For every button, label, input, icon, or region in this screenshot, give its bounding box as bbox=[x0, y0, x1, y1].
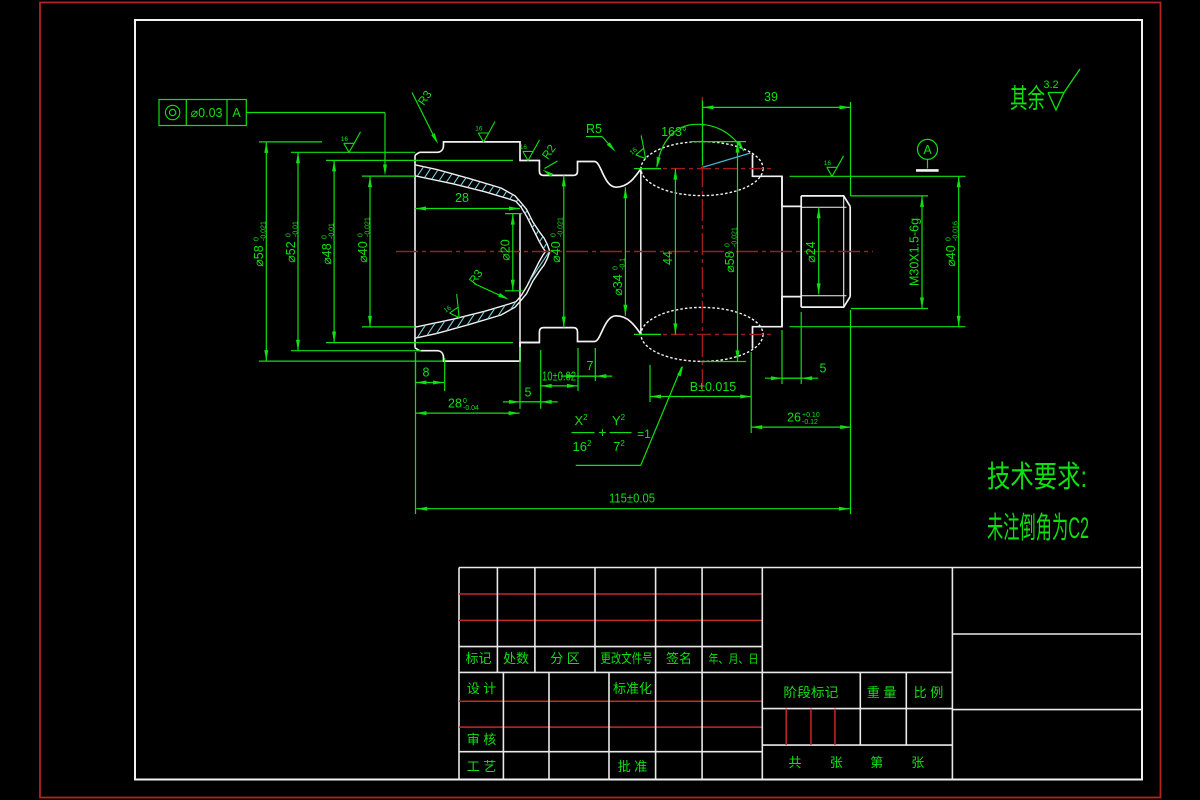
svg-text:B±0.015: B±0.015 bbox=[690, 380, 737, 394]
svg-text:审 核: 审 核 bbox=[467, 732, 497, 747]
svg-text:⌀20: ⌀20 bbox=[499, 239, 513, 260]
svg-text:0: 0 bbox=[551, 233, 558, 237]
svg-text:A: A bbox=[923, 143, 932, 157]
svg-text:⌀24: ⌀24 bbox=[804, 241, 818, 262]
svg-text:⌀40: ⌀40 bbox=[356, 241, 370, 262]
svg-text:-0.021: -0.021 bbox=[558, 217, 565, 237]
svg-text:-0.12: -0.12 bbox=[802, 419, 818, 426]
svg-text:163°: 163° bbox=[661, 125, 687, 139]
svg-text:处数: 处数 bbox=[503, 651, 529, 666]
svg-text:28: 28 bbox=[448, 397, 462, 411]
svg-text:28: 28 bbox=[455, 191, 469, 205]
svg-text:⌀40: ⌀40 bbox=[944, 245, 958, 266]
svg-text:+: + bbox=[598, 424, 606, 440]
svg-text:0: 0 bbox=[322, 235, 329, 239]
svg-text:⌀52: ⌀52 bbox=[284, 241, 298, 262]
svg-text:16: 16 bbox=[341, 136, 349, 143]
svg-text:其余: 其余 bbox=[1010, 84, 1045, 114]
svg-text:-0.021: -0.021 bbox=[365, 217, 372, 237]
svg-text:+0.10: +0.10 bbox=[802, 412, 820, 419]
svg-text:0: 0 bbox=[463, 398, 467, 405]
svg-text:A: A bbox=[232, 106, 241, 120]
svg-text:⌀58: ⌀58 bbox=[252, 245, 266, 266]
svg-text:共: 共 bbox=[788, 755, 801, 770]
svg-text:-0.016: -0.016 bbox=[953, 221, 960, 241]
svg-text:16: 16 bbox=[520, 144, 528, 151]
svg-text:设 计: 设 计 bbox=[467, 681, 497, 696]
svg-text:0: 0 bbox=[254, 237, 261, 241]
svg-text:年、月、日: 年、月、日 bbox=[709, 652, 759, 666]
svg-text:⌀58: ⌀58 bbox=[723, 251, 737, 272]
svg-text:5: 5 bbox=[525, 386, 532, 400]
svg-text:工 艺: 工 艺 bbox=[467, 759, 497, 774]
svg-text:0: 0 bbox=[946, 237, 953, 241]
svg-text:39: 39 bbox=[764, 90, 778, 104]
svg-text:-0.021: -0.021 bbox=[732, 227, 739, 247]
svg-text:阶段标记: 阶段标记 bbox=[783, 685, 838, 700]
svg-text:-0.01: -0.01 bbox=[329, 223, 336, 239]
svg-text:技术要求:: 技术要求: bbox=[987, 461, 1087, 494]
svg-text:标准化: 标准化 bbox=[613, 681, 652, 696]
svg-text:比 例: 比 例 bbox=[914, 685, 944, 700]
svg-text:⌀34: ⌀34 bbox=[611, 274, 625, 295]
svg-text:未注倒角为C2: 未注倒角为C2 bbox=[987, 512, 1089, 545]
svg-text:0: 0 bbox=[286, 233, 293, 237]
svg-text:-0.1: -0.1 bbox=[620, 258, 627, 270]
svg-text:=1: =1 bbox=[637, 427, 651, 441]
svg-text:44: 44 bbox=[661, 251, 675, 265]
svg-text:16: 16 bbox=[824, 160, 832, 167]
svg-text:⌀48: ⌀48 bbox=[320, 243, 334, 264]
svg-text:第: 第 bbox=[870, 755, 883, 770]
svg-text:签名: 签名 bbox=[666, 651, 692, 666]
svg-text:⌀40: ⌀40 bbox=[549, 241, 563, 262]
svg-text:-0.04: -0.04 bbox=[463, 405, 479, 412]
svg-text:重 量: 重 量 bbox=[867, 685, 897, 700]
svg-text:张: 张 bbox=[911, 755, 924, 770]
svg-text:0: 0 bbox=[613, 266, 620, 270]
svg-text:8: 8 bbox=[423, 366, 430, 380]
svg-text:批 准: 批 准 bbox=[618, 759, 648, 774]
svg-text:5: 5 bbox=[820, 362, 827, 376]
svg-text:-0.01: -0.01 bbox=[293, 221, 300, 237]
svg-text:M30X1.5-6g: M30X1.5-6g bbox=[908, 218, 922, 286]
svg-text:7: 7 bbox=[587, 359, 594, 373]
svg-text:⌀0.03: ⌀0.03 bbox=[191, 106, 223, 120]
svg-text:115±0.05: 115±0.05 bbox=[609, 492, 655, 506]
svg-text:-0.021: -0.021 bbox=[261, 221, 268, 241]
svg-text:R5: R5 bbox=[586, 122, 602, 136]
svg-text:更改文件号: 更改文件号 bbox=[601, 651, 653, 666]
svg-text:张: 张 bbox=[830, 755, 843, 770]
svg-text:26: 26 bbox=[787, 411, 801, 425]
svg-text:0: 0 bbox=[725, 243, 732, 247]
svg-text:分 区: 分 区 bbox=[550, 651, 580, 666]
svg-text:0: 0 bbox=[358, 233, 365, 237]
svg-text:标记: 标记 bbox=[465, 651, 491, 666]
svg-text:3.2: 3.2 bbox=[1043, 79, 1058, 91]
svg-text:16: 16 bbox=[475, 126, 483, 133]
